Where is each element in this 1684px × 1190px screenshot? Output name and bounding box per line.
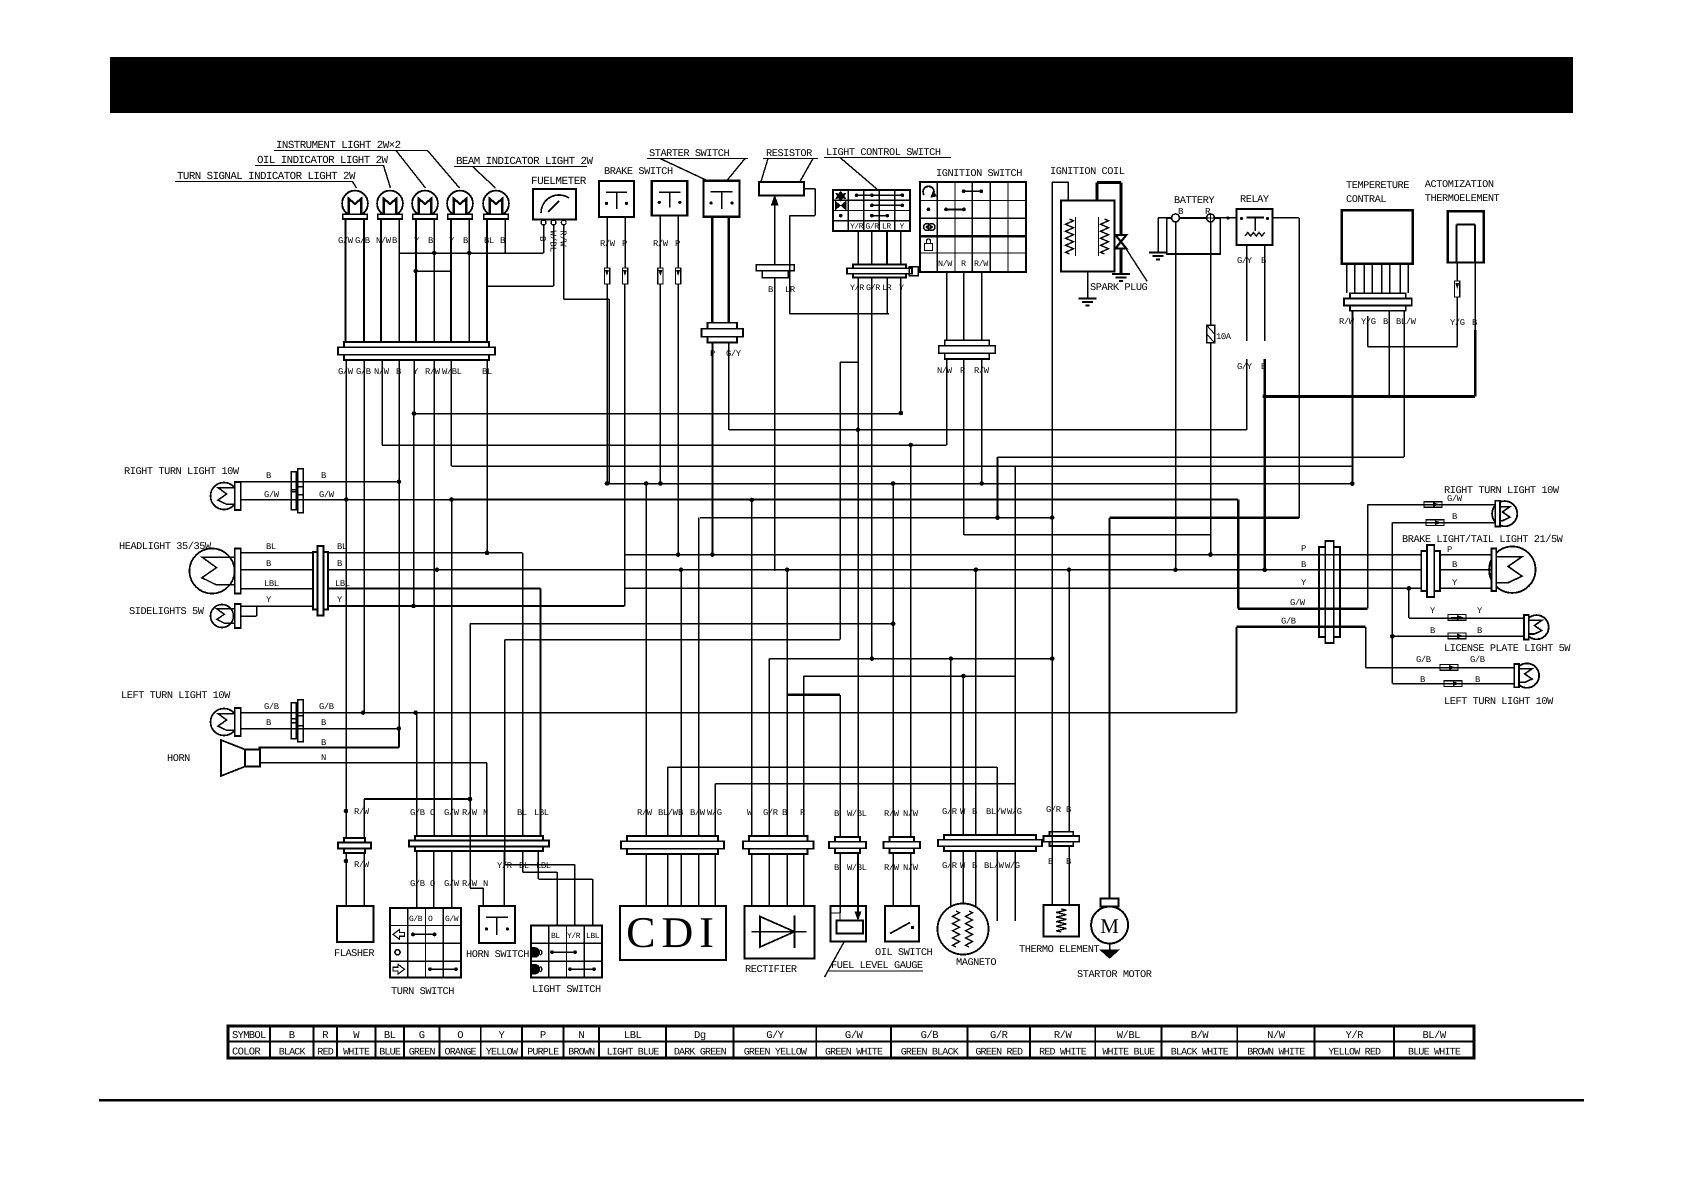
wire brake1 R/W xyxy=(606,217,608,268)
svg-text:Y/R: Y/R xyxy=(850,283,864,293)
svg-text:BL: BL xyxy=(551,932,560,941)
svg-text:Dg: Dg xyxy=(694,1030,706,1042)
wire hb BL xyxy=(522,851,524,872)
svg-text:LEFT TURN LIGHT 10W: LEFT TURN LIGHT 10W xyxy=(121,690,231,702)
svg-text:G/W: G/W xyxy=(845,1030,864,1042)
svg-text:BL: BL xyxy=(517,808,527,818)
svg-text:B: B xyxy=(321,471,326,481)
svg-text:TURN SWITCH: TURN SWITCH xyxy=(391,986,454,998)
svg-text:B: B xyxy=(428,236,433,246)
resistor body xyxy=(759,182,804,196)
wire fuelmeter W/BL xyxy=(553,225,555,286)
wire leads lamp 2 xyxy=(380,219,382,342)
wire ltl B right xyxy=(1392,683,1514,685)
svg-text:G/W: G/W xyxy=(445,915,459,924)
svg-text:G/B: G/B xyxy=(1470,655,1485,665)
svg-text:R/W: R/W xyxy=(354,807,370,817)
indicator lamp 4 xyxy=(447,191,473,217)
wire ignition R/W xyxy=(981,359,983,484)
svg-text:GREEN WHITE: GREEN WHITE xyxy=(825,1048,883,1059)
wire rtl B xyxy=(241,481,399,483)
svg-text:BL: BL xyxy=(519,861,529,871)
svg-text:BLACK WHITE: BLACK WHITE xyxy=(1171,1048,1229,1059)
svg-text:B: B xyxy=(1477,626,1482,636)
svg-text:G/R: G/R xyxy=(866,223,880,232)
svg-text:DARK GREEN: DARK GREEN xyxy=(674,1048,727,1059)
svg-text:B: B xyxy=(1475,675,1480,685)
wire magneto W/G xyxy=(1014,466,1016,835)
svg-text:THERMOELEMENT: THERMOELEMENT xyxy=(1425,193,1500,205)
wire flasher pins xyxy=(345,853,347,906)
fuse 10A xyxy=(1207,325,1215,343)
svg-text:G/W: G/W xyxy=(319,490,335,500)
svg-text:B: B xyxy=(768,285,773,295)
svg-text:Y/R: Y/R xyxy=(850,223,864,232)
svg-text:Y: Y xyxy=(449,236,455,246)
svg-text:Y: Y xyxy=(1301,578,1307,588)
svg-text:Y: Y xyxy=(900,223,905,232)
svg-text:N/W: N/W xyxy=(376,236,392,246)
svg-text:R: R xyxy=(961,259,966,269)
wire drop N/W xyxy=(381,360,383,445)
wire license Y xyxy=(1408,588,1410,618)
svg-text:G/W: G/W xyxy=(1290,598,1306,608)
wire CDI R/W xyxy=(645,484,647,837)
footer rule xyxy=(99,1099,1584,1102)
wire rail W/G 783 xyxy=(715,783,1015,785)
wire battery left ground xyxy=(1158,217,1172,219)
thermo element box xyxy=(1044,905,1080,937)
svg-text:G/B: G/B xyxy=(355,236,370,246)
wire hb YR xyxy=(504,640,506,851)
svg-text:FUELMETER: FUELMETER xyxy=(531,176,587,188)
svg-text:TEMPERETURE: TEMPERETURE xyxy=(1346,180,1409,192)
svg-text:G/R: G/R xyxy=(942,861,958,871)
instrument cluster connector xyxy=(344,342,489,347)
svg-text:B/W: B/W xyxy=(690,808,706,818)
svg-text:OIL SWITCH: OIL SWITCH xyxy=(875,947,933,959)
wire rail G/Y 429 xyxy=(729,429,1247,431)
battery box xyxy=(1167,218,1221,254)
svg-text:BLUE WHITE: BLUE WHITE xyxy=(1408,1048,1461,1059)
wire rail G/R 658 xyxy=(769,658,1052,660)
svg-text:W/BL: W/BL xyxy=(847,809,867,819)
wire resistor hook LR xyxy=(804,188,815,190)
wire Y rail xyxy=(413,360,415,414)
label SPARK PLUG xyxy=(1125,247,1147,281)
fuel gauge connector xyxy=(835,837,860,842)
svg-text:LIGHT BLUE: LIGHT BLUE xyxy=(607,1048,660,1059)
svg-text:B: B xyxy=(782,808,787,818)
thermo element connector xyxy=(1050,832,1074,836)
wire hb O down xyxy=(433,851,435,908)
wire GB tail thick xyxy=(1236,626,1365,628)
svg-text:IGNITION COIL: IGNITION COIL xyxy=(1050,166,1125,178)
svg-text:BL/W: BL/W xyxy=(1396,317,1417,327)
svg-text:R/W: R/W xyxy=(425,367,441,377)
wire resistor arrow B xyxy=(774,199,776,265)
svg-text:G/B: G/B xyxy=(410,879,425,889)
wire rail 620 xyxy=(470,623,893,625)
wire magneto BL/W xyxy=(996,767,998,835)
wire temp B xyxy=(1388,311,1390,397)
flasher box xyxy=(337,906,374,942)
wire brake1 P xyxy=(624,217,626,268)
wire temp Y/G xyxy=(1367,316,1369,347)
wire thermoelement Y/G xyxy=(1456,263,1458,281)
wire rail 517 xyxy=(700,517,1052,519)
svg-text:B: B xyxy=(289,1030,295,1042)
wires LCS pins xyxy=(857,231,859,265)
svg-text:W/BL: W/BL xyxy=(442,367,462,377)
fuel gauge box xyxy=(831,906,866,942)
svg-text:B: B xyxy=(1452,512,1457,522)
svg-text:G/R: G/R xyxy=(1046,805,1062,815)
wire fuelmeter B xyxy=(543,225,545,253)
wire temp BL/W xyxy=(1403,311,1405,458)
svg-text:G/Y: G/Y xyxy=(1237,362,1253,372)
svg-text:B: B xyxy=(337,559,342,569)
light switch xyxy=(531,925,602,927)
horn switch xyxy=(479,906,515,943)
wire ignition R xyxy=(963,359,965,535)
svg-text:B: B xyxy=(1430,626,1435,636)
ground coil xyxy=(1079,298,1097,300)
LCS connector xyxy=(853,265,906,269)
svg-text:LBL: LBL xyxy=(586,932,600,941)
wire thermo B xyxy=(1068,570,1070,832)
wire battery B down xyxy=(1175,222,1177,570)
wire brake P xyxy=(1440,554,1492,556)
svg-text:B: B xyxy=(266,471,271,481)
svg-text:LIGHT SWITCH: LIGHT SWITCH xyxy=(532,984,601,996)
wire temp R/W xyxy=(1351,311,1353,484)
svg-text:WHITE: WHITE xyxy=(343,1048,370,1059)
wire lamp Y bus xyxy=(416,270,451,272)
magneto body xyxy=(938,904,989,955)
thermoelement inner xyxy=(1456,224,1458,262)
wire drop R/W to turn switch O xyxy=(433,360,435,836)
wire horn N xyxy=(260,762,487,764)
svg-text:MAGNETO: MAGNETO xyxy=(956,957,996,969)
svg-text:LR: LR xyxy=(882,223,891,232)
wire lamp BL bus xyxy=(487,285,554,287)
svg-text:SIDELIGHTS 5W: SIDELIGHTS 5W xyxy=(129,606,205,618)
svg-text:PURPLE: PURPLE xyxy=(527,1048,559,1059)
resistor connector xyxy=(756,265,794,271)
battery terminals xyxy=(1172,214,1180,222)
svg-text:B: B xyxy=(463,236,468,246)
svg-text:COLOR: COLOR xyxy=(232,1047,261,1059)
svg-text:Y/R: Y/R xyxy=(1346,1030,1365,1042)
wire starter pins xyxy=(711,217,713,323)
svg-text:GREEN: GREEN xyxy=(409,1048,436,1059)
svg-text:LR: LR xyxy=(785,285,796,295)
starter switch xyxy=(704,181,740,217)
svg-text:B: B xyxy=(1261,362,1266,372)
svg-text:G/B: G/B xyxy=(410,808,425,818)
wire drop G/B xyxy=(363,360,365,713)
rectifier connector xyxy=(749,836,808,841)
svg-text:FUEL LEVEL GAUGE: FUEL LEVEL GAUGE xyxy=(831,960,923,972)
svg-text:R/W: R/W xyxy=(354,860,370,870)
svg-text:RED: RED xyxy=(317,1048,333,1059)
svg-text:N/W: N/W xyxy=(937,366,953,376)
svg-text:HORN SWITCH: HORN SWITCH xyxy=(466,949,529,961)
wire thermoelement B xyxy=(1474,263,1476,330)
wire ltl GB right xyxy=(1365,627,1367,668)
svg-text:N: N xyxy=(578,1030,584,1042)
svg-text:B: B xyxy=(1261,256,1266,266)
svg-text:G/B: G/B xyxy=(921,1030,939,1042)
wire brake Y xyxy=(625,587,1422,589)
wire headlight BL xyxy=(241,552,313,554)
wire oil N/W xyxy=(910,445,912,837)
svg-text:R: R xyxy=(960,366,966,376)
wire leads lamp 3 xyxy=(415,219,417,342)
wire LCS Y/R xyxy=(857,278,859,430)
svg-text:G/B: G/B xyxy=(264,702,279,712)
svg-text:Y: Y xyxy=(1452,578,1458,588)
svg-text:R/W: R/W xyxy=(600,239,616,249)
wire rail 467 xyxy=(452,465,1353,467)
svg-text:B: B xyxy=(834,809,839,819)
fuelmeter gauge xyxy=(533,189,576,220)
svg-text:BL: BL xyxy=(266,542,276,552)
svg-text:G/W: G/W xyxy=(1447,494,1463,504)
ignition coil box xyxy=(1061,200,1115,271)
temperature control box xyxy=(1342,210,1413,264)
relay coil xyxy=(1245,233,1265,237)
svg-text:HEADLIGHT 35/35W: HEADLIGHT 35/35W xyxy=(119,541,212,553)
starter motor xyxy=(1091,907,1128,944)
wire leads lamp 1 xyxy=(345,219,347,342)
svg-text:BL/W: BL/W xyxy=(1422,1030,1446,1042)
wire right lamps B feeder xyxy=(1391,523,1393,684)
wire ltl G/B rail xyxy=(241,712,1237,714)
spark gap xyxy=(1116,235,1127,249)
svg-text:RIGHT TURN LIGHT 10W: RIGHT TURN LIGHT 10W xyxy=(124,466,240,478)
svg-text:THERMO ELEMENT: THERMO ELEMENT xyxy=(1019,944,1099,956)
svg-text:O: O xyxy=(457,1030,463,1042)
svg-text:RED WHITE: RED WHITE xyxy=(1039,1048,1087,1059)
starter switch connector xyxy=(708,323,738,329)
svg-text:Y: Y xyxy=(1430,606,1436,616)
svg-text:ACTOMIZATION: ACTOMIZATION xyxy=(1425,179,1494,191)
svg-text:YELLOW: YELLOW xyxy=(486,1048,518,1059)
svg-text:B: B xyxy=(537,236,547,242)
light control switch xyxy=(833,189,910,191)
svg-text:N: N xyxy=(483,879,488,889)
wire hb R/W down xyxy=(469,624,471,851)
svg-text:G/B: G/B xyxy=(319,702,334,712)
fuelmeter terminals xyxy=(541,220,546,225)
svg-text:STARTOR MOTOR: STARTOR MOTOR xyxy=(1077,969,1152,981)
svg-text:WHITE BLUE: WHITE BLUE xyxy=(1102,1048,1155,1059)
sidelight bulb xyxy=(211,605,234,628)
wire CDI W/G xyxy=(714,784,716,836)
wire brake2 R/W xyxy=(659,216,661,268)
wire fuel W/BL xyxy=(857,430,859,837)
wire rail 457 xyxy=(998,456,1405,458)
svg-text:R/W: R/W xyxy=(558,230,568,247)
ground spark plug xyxy=(1112,273,1130,275)
wire thermo G/R xyxy=(1051,832,1053,846)
svg-text:P: P xyxy=(675,239,680,249)
wire drop W/BL xyxy=(450,360,452,466)
svg-text:G/Y: G/Y xyxy=(766,1030,785,1042)
wire rail P 554 xyxy=(625,554,1422,556)
wire LCS LR xyxy=(886,278,888,314)
flasher connector xyxy=(344,838,365,843)
svg-text:P: P xyxy=(1301,544,1306,554)
svg-text:HORN: HORN xyxy=(167,753,190,765)
indicator lamp 3 xyxy=(412,191,438,217)
svg-text:BLACK: BLACK xyxy=(279,1048,306,1059)
brake switch 2 xyxy=(652,181,688,216)
wire magneto W xyxy=(962,676,964,835)
svg-text:N/W: N/W xyxy=(938,259,953,269)
svg-text:LBL: LBL xyxy=(534,808,549,818)
svg-text:B: B xyxy=(321,718,326,728)
left turn light bulb left xyxy=(211,709,238,736)
svg-text:W/G: W/G xyxy=(1005,861,1020,871)
wire rail R/W 483 xyxy=(607,483,1352,485)
wire rect W xyxy=(751,500,753,836)
wire ltl B xyxy=(241,728,399,730)
rectifier box xyxy=(745,906,815,959)
svg-text:Y: Y xyxy=(499,1030,506,1042)
indicator lamp 2 xyxy=(377,191,403,217)
svg-text:R/W: R/W xyxy=(974,259,989,269)
svg-text:BL: BL xyxy=(384,1030,396,1042)
CDI connector xyxy=(627,836,718,841)
wire hb N down xyxy=(486,763,488,836)
svg-text:G/Y: G/Y xyxy=(1237,256,1253,266)
svg-text:B: B xyxy=(1452,560,1457,570)
wire horn B xyxy=(259,747,399,749)
svg-text:LEFT TURN LIGHT 10W: LEFT TURN LIGHT 10W xyxy=(1444,696,1554,708)
svg-text:W/BL: W/BL xyxy=(1117,1030,1140,1042)
relay contact xyxy=(1247,217,1265,219)
wire fuel B xyxy=(839,695,841,837)
svg-text:IGNITION SWITCH: IGNITION SWITCH xyxy=(936,168,1022,180)
wire GW tail thick xyxy=(1237,500,1239,609)
svg-text:G/B: G/B xyxy=(1281,617,1296,627)
wire hb LBL xyxy=(537,851,539,879)
tail loom connector xyxy=(1319,547,1325,637)
svg-text:BROWN: BROWN xyxy=(568,1048,595,1059)
ground starter motor xyxy=(1101,950,1119,958)
svg-text:B: B xyxy=(1420,675,1425,685)
wire fuelmeter R/W xyxy=(563,225,565,299)
svg-text:B: B xyxy=(321,738,326,748)
wire rect G/R xyxy=(768,659,770,836)
wire magneto G/R xyxy=(950,659,952,835)
wire CDI B/W xyxy=(698,517,700,836)
wire drop B xyxy=(398,360,400,729)
svg-text:BL/W: BL/W xyxy=(986,807,1007,817)
svg-text:B: B xyxy=(834,863,839,873)
svg-text:Y: Y xyxy=(1477,606,1483,616)
wire LCS G/R xyxy=(871,278,873,659)
svg-text:B: B xyxy=(392,236,397,246)
svg-text:Y/R: Y/R xyxy=(567,932,581,941)
svg-text:B/W: B/W xyxy=(1191,1030,1210,1042)
svg-text:R/W: R/W xyxy=(637,808,653,818)
svg-text:Y: Y xyxy=(414,236,420,246)
wire battery to relay xyxy=(1215,217,1237,219)
svg-text:N/W: N/W xyxy=(1267,1030,1286,1042)
svg-text:RECTIFIER: RECTIFIER xyxy=(745,964,797,976)
wire rect R xyxy=(803,676,805,836)
svg-text:ORANGE: ORANGE xyxy=(445,1048,477,1059)
svg-text:SYMBOL: SYMBOL xyxy=(232,1030,266,1042)
indicator lamp 5 xyxy=(483,191,509,217)
wire starter motor xyxy=(1109,518,1111,899)
handlebar connector xyxy=(415,836,543,841)
wire leads lamp 5 xyxy=(486,219,488,342)
svg-text:O: O xyxy=(430,808,435,818)
svg-text:R/W: R/W xyxy=(884,863,900,873)
wire headlight LBL xyxy=(241,588,313,590)
svg-text:LICENSE PLATE LIGHT 5W: LICENSE PLATE LIGHT 5W xyxy=(1444,643,1571,655)
wire rail 518 motor xyxy=(1110,517,1300,519)
svg-text:B: B xyxy=(500,236,505,246)
horn xyxy=(221,740,245,776)
wire CDI B xyxy=(680,570,682,836)
color code table xyxy=(228,1026,1474,1058)
wire hb G/B down xyxy=(416,713,418,836)
wire license B xyxy=(1392,635,1524,637)
svg-text:R/W: R/W xyxy=(1054,1030,1073,1042)
ignition coil windings xyxy=(1066,219,1074,254)
svg-text:GREEN RED: GREEN RED xyxy=(975,1048,1023,1059)
svg-text:Y/G: Y/G xyxy=(1450,318,1465,328)
thermo element zigzag xyxy=(1056,909,1066,932)
oil switch connector xyxy=(890,837,915,842)
wires ignition pins xyxy=(946,272,948,340)
svg-text:R/W: R/W xyxy=(653,239,669,249)
wire rail 396 thick xyxy=(1265,395,1475,398)
wire rail 767 xyxy=(668,766,998,768)
headlight connector xyxy=(313,552,318,610)
wire starter P xyxy=(711,343,713,555)
wire motor ground xyxy=(1109,944,1111,951)
wire lamp B bus xyxy=(399,252,543,254)
svg-text:N: N xyxy=(321,753,326,763)
turn switch xyxy=(390,907,461,909)
title bar xyxy=(110,57,1573,113)
ignition switch xyxy=(920,181,1026,183)
wire sidelight xyxy=(241,615,257,617)
wire starter G/Y xyxy=(728,343,730,430)
headlight bulb xyxy=(190,549,235,594)
wire ignition N/W xyxy=(946,359,948,445)
wire coil HT lead xyxy=(1097,181,1121,184)
left turn lamp right xyxy=(1515,663,1539,687)
svg-text:P: P xyxy=(622,239,627,249)
wire relay B xyxy=(1264,245,1266,341)
wire coil center tap xyxy=(1087,271,1089,297)
wire brake2 P xyxy=(677,216,679,268)
wire oil R/W xyxy=(892,484,894,838)
svg-text:BROWN WHITE: BROWN WHITE xyxy=(1247,1048,1305,1059)
svg-text:P: P xyxy=(1447,545,1452,555)
relay box xyxy=(1237,209,1273,245)
svg-text:SPARK PLUG: SPARK PLUG xyxy=(1090,282,1148,294)
wire rect B xyxy=(786,570,788,695)
